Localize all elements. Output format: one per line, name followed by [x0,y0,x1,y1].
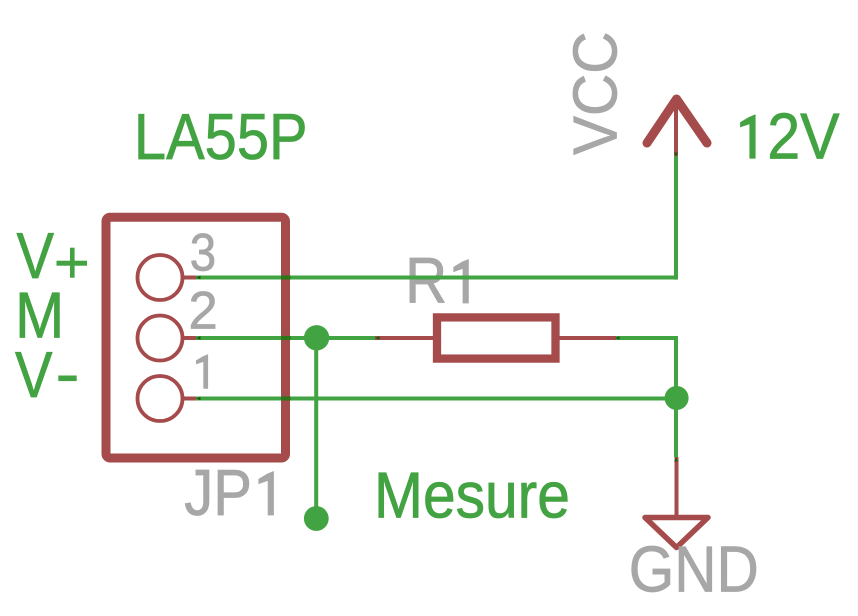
wire pin1 to GND node [196,397,676,401]
pin 1 lead [182,397,197,401]
gnd junction marker [674,457,678,462]
pin 2 lead [182,336,197,340]
wire pin2 to resistor [196,336,375,340]
svg-text:2: 2 [189,282,218,341]
svg-text:JP: JP [184,457,252,530]
resistor left junction marker [375,336,380,340]
svg-text:Mesure: Mesure [374,460,570,532]
svg-text:3: 3 [190,223,216,282]
svg-text:LA55P: LA55P [134,101,308,173]
pin number 1 [196,355,207,389]
resistor right lead [560,336,617,340]
pin name V- [15,338,77,410]
VCC supply arrow shaft [674,100,678,156]
GND triangle [645,518,708,548]
svg-text:GND: GND [629,534,759,606]
vcc junction marker [674,153,678,158]
wire VCC vertical [674,156,678,279]
pin 3 lead [182,276,197,280]
pin 1 circle [138,376,183,421]
wire junction down to Mesure stub [314,338,318,518]
overlap wire x box edge pin2 [281,336,291,340]
pin2 junction marker [196,336,201,340]
resistor R1 body [437,317,556,358]
wire pin3 to VCC corner [196,276,676,280]
junction dot node B [665,386,689,410]
connector JP1 box [106,217,286,458]
pin1 junction marker [196,397,201,401]
svg-text:V: V [15,338,53,410]
resistor left lead [375,336,433,340]
pin 3 circle [138,255,183,300]
svg-text:2V: 2V [767,101,840,173]
svg-text:R: R [405,245,447,317]
GND symbol lead red part [675,457,679,516]
supply value 12V [741,115,756,159]
VCC supply arrow head [647,99,707,143]
svg-text:VCC: VCC [560,32,630,155]
wire end dot Mesure [304,506,329,531]
pin name V+ [17,219,88,291]
overlap wire x box edge pin3 [281,275,291,279]
wire node to GND symbol [674,399,678,458]
junction dot node A [304,325,329,350]
pin 2 circle [138,316,183,361]
pin3 junction marker [196,276,201,280]
resistor right junction marker [615,336,620,340]
overlap wire x box edge pin1 [281,396,291,400]
wire resistor right to node [616,338,676,399]
